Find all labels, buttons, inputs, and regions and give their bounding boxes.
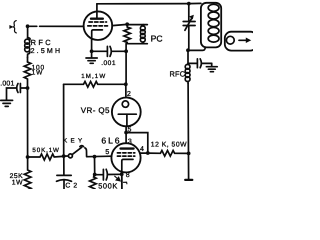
node M (pin4 junction)	[146, 151, 150, 155]
node N (B+ junction)	[187, 152, 191, 156]
wire left rail down	[27, 88, 29, 157]
capacitor .001 (osc)	[92, 46, 127, 56]
node J (PC top)	[125, 22, 129, 26]
svg-text:KEY: KEY	[63, 138, 86, 145]
resistor 50K,1W	[28, 154, 63, 160]
parasitic choke PC	[124, 25, 147, 44]
resistor 500K	[90, 175, 97, 189]
6L6 plate	[121, 147, 134, 149]
ground (left)	[1, 100, 13, 106]
svg-text:RFC: RFC	[170, 69, 186, 78]
wire cathode down	[121, 174, 123, 189]
wire RFC to R	[27, 58, 29, 63]
svg-text:8: 8	[126, 172, 130, 179]
wire node K to VR tube	[125, 84, 127, 97]
node L (screen tap)	[124, 131, 128, 135]
ground (tank)	[206, 63, 217, 71]
tick mark	[123, 182, 127, 184]
svg-text:RFC: RFC	[31, 38, 53, 47]
variable capacitor	[183, 4, 195, 51]
ground (osc cathode)	[86, 51, 97, 63]
6L6 grid 2 (dashed)	[117, 152, 134, 154]
svg-text:500K: 500K	[98, 182, 118, 190]
wire osc cathode down	[91, 40, 93, 51]
svg-text:50K,1W: 50K,1W	[32, 147, 59, 154]
wire input to oscillator grid	[30, 25, 84, 27]
node H (osc cathode)	[90, 49, 94, 53]
node F (500K / cap junction)	[93, 173, 97, 177]
wire VR to 6L6 plate	[125, 126, 127, 143]
node E	[93, 155, 97, 159]
node D (key/C2 junction)	[62, 154, 66, 158]
capacitor (tank bypass)	[188, 50, 212, 67]
terminal B+	[185, 179, 192, 181]
svg-text:2: 2	[127, 89, 131, 98]
svg-text:C: C	[65, 182, 70, 189]
wire node E down	[94, 157, 96, 175]
tube VR Q5	[112, 98, 141, 127]
svg-text:PC: PC	[151, 33, 163, 43]
wire B+ vertical	[187, 84, 190, 180]
wire pin4 lead	[141, 152, 148, 154]
wire screen branch	[126, 133, 148, 153]
wire 1M left leg down to key line	[63, 84, 65, 156]
wire osc screen to PC	[112, 24, 127, 25]
capacitor C2	[57, 156, 72, 189]
svg-text:1W: 1W	[32, 70, 44, 77]
node P (tank bottom junction)	[186, 48, 190, 52]
capacitor (cathode bypass, bottom)	[95, 169, 122, 180]
svg-text:1W: 1W	[12, 179, 23, 186]
output link to antenna	[225, 32, 257, 51]
resistor 100 1W	[24, 62, 31, 86]
svg-text:2.5MH: 2.5MH	[31, 48, 63, 55]
osc plate	[96, 4, 98, 19]
switch KEY	[68, 146, 86, 158]
resistor 1M,1W	[64, 82, 126, 88]
wire PC down to VR	[125, 44, 127, 84]
svg-text:VR- Q5: VR- Q5	[81, 106, 110, 115]
svg-text:.001: .001	[101, 60, 116, 67]
svg-text:2: 2	[73, 182, 77, 189]
capacitor .001 (left)	[7, 84, 28, 100]
inductor RFC 2.5MH	[25, 38, 30, 58]
wire node A down	[27, 26, 29, 37]
node B (100ohm bottom)	[26, 86, 30, 90]
resistor 12K,50W	[148, 151, 189, 157]
node A (crystal input junction)	[26, 24, 30, 28]
node O (rail/varcap junction)	[187, 2, 191, 6]
osc grid 2 (dashed)	[89, 21, 107, 23]
osc cathode	[92, 30, 103, 40]
svg-text:.001: .001	[0, 80, 14, 87]
node C (50K junction)	[26, 155, 30, 159]
svg-text:1M,1W: 1M,1W	[81, 73, 106, 80]
wire node D to key contact	[64, 155, 69, 157]
6L6 cathode	[122, 159, 133, 174]
resistor 25K 1W	[24, 157, 31, 190]
tube osc V1	[84, 11, 113, 40]
svg-text:5: 5	[105, 149, 109, 156]
tank coil L1	[201, 3, 221, 48]
inductor RFC (right)	[185, 63, 190, 83]
wire key to grid	[87, 155, 112, 158]
node K (VR top)	[124, 82, 128, 86]
node G (cathode junction)	[120, 172, 124, 176]
top rail wire	[97, 2, 201, 4]
node I	[124, 49, 128, 53]
svg-text:6L6: 6L6	[101, 135, 121, 145]
svg-text:4: 4	[140, 146, 144, 153]
arrow at cathode	[116, 177, 121, 181]
osc grid 1 (dashed)	[88, 25, 108, 27]
svg-text:12 K, 50W: 12 K, 50W	[151, 142, 187, 149]
wire to tank bottom	[188, 47, 205, 50]
input arrow	[10, 21, 17, 33]
6L6 grid 1 (dashed)	[117, 155, 134, 157]
tube 6L6	[111, 143, 140, 172]
